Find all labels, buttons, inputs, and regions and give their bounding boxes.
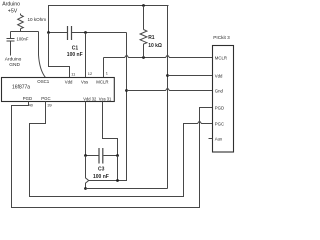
svg-text:11: 11 [71, 72, 75, 77]
node dot C3 right [116, 154, 119, 157]
node dot Vss pin junction [84, 31, 87, 34]
svg-text:100nF: 100nF [17, 36, 29, 41]
svg-text:PICkit 3: PICkit 3 [213, 35, 230, 40]
svg-text:39: 39 [47, 102, 51, 107]
capacitor C1 plates [68, 26, 72, 40]
svg-text:12: 12 [88, 71, 92, 76]
wire PGD path from pin 40 [12, 102, 213, 208]
svg-text:Vdd 32: Vdd 32 [83, 96, 97, 101]
node dot C1 left [47, 31, 50, 34]
wire resistor bottom to node [20, 29, 22, 32]
svg-text:PGD: PGD [215, 106, 224, 111]
wire Vdd to PICkit [168, 75, 213, 77]
wire C3 right down to Gnd rail [117, 156, 119, 181]
capacitor 100nF (left) plates [7, 39, 15, 42]
svg-text:PGC: PGC [41, 96, 50, 101]
wire Gnd net vertical right of chip [89, 33, 127, 181]
svg-text:+5V: +5V [8, 9, 18, 15]
wire C3 right segment [103, 155, 117, 157]
node dot C3 left [84, 154, 87, 157]
svg-text:PGC: PGC [215, 122, 224, 127]
wire C1 left segment [49, 32, 68, 34]
svg-text:GND: GND [9, 62, 20, 68]
wire Vdd pin32 down to C3 [85, 102, 87, 156]
label C1 value [67, 46, 83, 59]
wire RC node down toward OSC1 [38, 32, 40, 56]
svg-text:40: 40 [29, 102, 34, 107]
svg-text:10 kΩ: 10 kΩ [148, 43, 162, 49]
svg-text:Vdd: Vdd [65, 80, 73, 85]
node dot Gnd wire junction [125, 89, 128, 92]
svg-text:Vdd: Vdd [215, 74, 223, 79]
svg-text:PGD: PGD [23, 96, 32, 101]
wire Vdd branch to pin 11 [49, 33, 70, 78]
op: chip IC 16F877a box [2, 78, 115, 102]
wire node horizontal (RC node) [11, 31, 39, 33]
svg-text:16f877a: 16f877a [12, 84, 30, 90]
node dot R1 bottom on MCLR net [142, 56, 145, 59]
node dot Vss junction on Gnd rail [116, 179, 119, 182]
svg-text:100 nF: 100 nF [67, 52, 83, 58]
resistor 10 kOhm (Arduino pull-up) [18, 15, 24, 29]
label C3 value [93, 167, 109, 180]
wire Vdd net vertical x167 [167, 6, 169, 189]
wire MCLR net horizontal with hops [104, 55, 213, 58]
node Arduino GND label [5, 57, 22, 69]
svg-text:Arduino: Arduino [2, 2, 20, 8]
node dot Vdd wire junction [166, 74, 169, 77]
wire Vdd bottom rail to riser [86, 188, 168, 190]
svg-text:MCLR: MCLR [96, 80, 108, 85]
svg-text:Arduino: Arduino [5, 57, 22, 63]
svg-text:R1: R1 [148, 35, 155, 41]
wire C1 right segment to Gnd corner [72, 32, 127, 34]
wire Vss pin31 step down [103, 102, 118, 156]
wire node down to capacitor [10, 32, 12, 39]
node dot R1 top on Vdd rail [142, 4, 145, 7]
connector PICkit 3 box [213, 46, 234, 153]
resistor R1 [140, 6, 147, 58]
wire PGC path from pin 39 [30, 102, 213, 197]
svg-text:Vss: Vss [81, 80, 88, 85]
wire Vdd vertical with hop kink over Gnd rail [86, 156, 89, 189]
svg-text:C1: C1 [72, 46, 79, 52]
wire MCLR pin 1 up [103, 58, 105, 78]
svg-text:MCLR: MCLR [215, 56, 227, 61]
svg-text:Gnd: Gnd [215, 89, 224, 94]
wire Gnd to PICkit with hop [127, 88, 213, 91]
wire capacitor to GND [10, 42, 12, 56]
wire diagonal to OSC1 pin [39, 55, 46, 78]
wire from +5V to resistor [20, 14, 22, 16]
wire top Vdd rail [49, 6, 169, 33]
svg-text:10 kOhm: 10 kOhm [28, 17, 47, 22]
svg-text:Aux: Aux [215, 137, 223, 142]
wire C3 left segment [86, 155, 99, 157]
svg-text:Vss 31: Vss 31 [99, 96, 112, 101]
node Arduino +5V label [2, 2, 20, 15]
pin tick Aux [209, 138, 213, 140]
svg-text:C3: C3 [98, 167, 105, 173]
capacitor C3 plates [99, 148, 103, 164]
wire Vss branch to pin 12 [85, 33, 87, 78]
label R1 [148, 35, 162, 49]
node dot Vdd bottom junction [84, 187, 87, 190]
svg-text:OSC1: OSC1 [37, 79, 50, 84]
svg-text:100 nF: 100 nF [93, 174, 109, 180]
svg-text:1: 1 [106, 71, 108, 76]
